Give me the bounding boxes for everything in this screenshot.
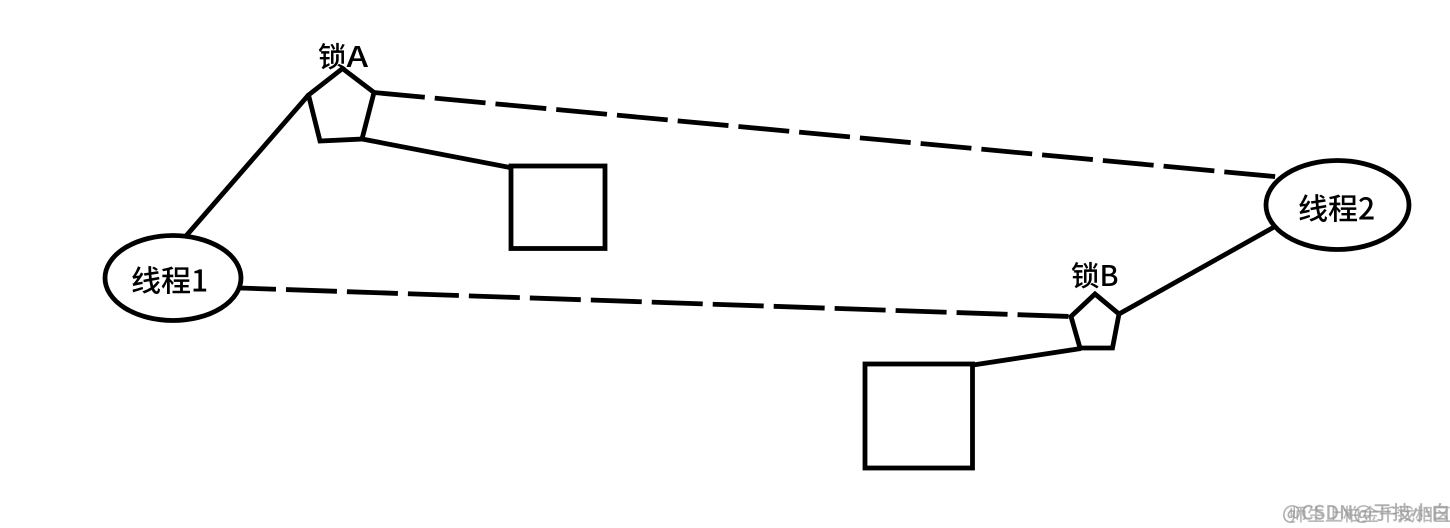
node 线程1 (ellipse)	[105, 236, 241, 321]
node square S1	[511, 166, 605, 249]
label 锁B	[1072, 262, 1118, 289]
wire: solid edge square S2 -> 锁B	[973, 349, 1081, 366]
node 线程2 (ellipse)	[1266, 161, 1409, 250]
wire: solid edge 锁A -> square S1	[362, 139, 515, 169]
watermark layer 1	[1283, 503, 1448, 523]
node square S2	[865, 364, 973, 468]
node 锁B (pentagon)	[1071, 294, 1119, 348]
label 线程1	[132, 266, 206, 294]
wire: solid edge 线程1 -> 锁A	[186, 95, 309, 236]
watermark layer 2	[1291, 506, 1450, 523]
wire: dashed edge 锁A -> 线程2	[374, 93, 1285, 178]
label 线程2	[1299, 194, 1373, 222]
node 锁A (pentagon)	[309, 69, 375, 142]
label 锁A	[319, 43, 368, 70]
wire: dashed edge 线程1 -> 锁B	[240, 288, 1071, 317]
wire: solid edge 锁B -> 线程2	[1119, 222, 1283, 314]
